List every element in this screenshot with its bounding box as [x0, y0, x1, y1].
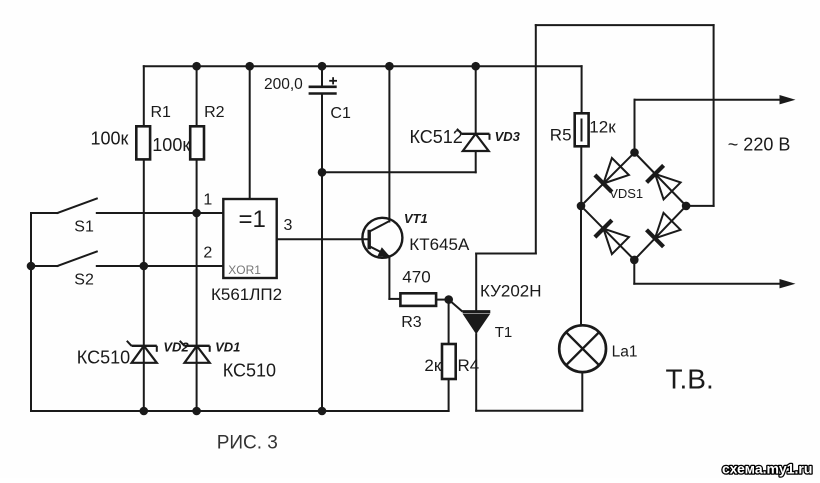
wire C1 column upper: [321, 66, 323, 86]
svg-text:VD2: VD2: [163, 340, 189, 355]
switch S2 blade: [58, 252, 97, 267]
svg-text:100к: 100к: [152, 135, 190, 155]
wire cathode-lamp bottom segment: [476, 410, 582, 412]
wire bridge edge top-right: [635, 153, 687, 206]
lamp La1: [559, 325, 606, 372]
wire left column S1-S2-bottom: [30, 213, 32, 411]
svg-text:КС510: КС510: [223, 360, 276, 380]
svg-text:КТ645А: КТ645А: [409, 235, 470, 254]
resistor R1: [136, 126, 150, 159]
transistor VT1: [362, 218, 402, 258]
wire C1 to VD3 bottom: [322, 171, 476, 173]
node top rail gate: [245, 62, 254, 71]
wire S2 left lead: [31, 265, 58, 267]
svg-text:100к: 100к: [91, 128, 129, 148]
wire visible inside R5: [581, 119, 583, 142]
wire lower mains lead: [634, 283, 781, 285]
wire R3 to node: [436, 299, 449, 301]
svg-text:Т.В.: Т.В.: [666, 363, 714, 394]
wire K202 column up: [535, 25, 537, 253]
node bottom rail R1: [140, 407, 149, 416]
wire bridge top vertex up: [634, 100, 636, 153]
wire bridge bottom vertex down: [633, 260, 635, 284]
wire gate output pin3 to base: [277, 238, 370, 240]
wire R2 column lower: [196, 159, 198, 411]
wire R4 column upper: [448, 300, 450, 344]
resistor R4: [442, 344, 456, 379]
wire right column down: [713, 25, 715, 206]
svg-text:R3: R3: [401, 314, 422, 331]
svg-text:=1: =1: [239, 206, 266, 233]
wire top rail: [144, 65, 582, 67]
capacitor C1 plus sign: [329, 77, 337, 84]
resistor R5: [575, 113, 589, 146]
node bridge left vertex: [577, 202, 586, 211]
wire bottom rail: [31, 410, 449, 412]
svg-text:R4: R4: [458, 356, 480, 375]
svg-text:470: 470: [402, 267, 430, 286]
wire S1 left lead: [31, 212, 58, 214]
svg-text:К561ЛП2: К561ЛП2: [211, 285, 282, 304]
wire top link rail: [536, 24, 714, 26]
switch S1 blade: [58, 199, 97, 214]
svg-text:Т1: Т1: [495, 324, 513, 341]
node R3 R4 gate: [444, 295, 453, 304]
svg-text:VD1: VD1: [215, 340, 240, 355]
wire lamp bottom lead: [581, 372, 583, 411]
svg-text:R2: R2: [204, 104, 225, 121]
wire VD3 column upper: [475, 66, 477, 134]
node top rail VT1: [385, 62, 394, 71]
node top rail C1: [318, 62, 327, 71]
wire bridge left vertex to lamp: [580, 206, 582, 326]
wire R5 top lead: [581, 66, 583, 113]
svg-text:VT1: VT1: [404, 211, 428, 226]
zener diode VD3: [457, 129, 490, 151]
node top rail R2: [192, 62, 201, 71]
arrowhead lower mains: [780, 279, 796, 288]
transistor VT1 emitter arrow: [377, 247, 390, 257]
svg-text:12к: 12к: [589, 117, 616, 136]
capacitor C1: [309, 87, 337, 94]
svg-text:3: 3: [284, 217, 293, 234]
node bridge bottom vertex: [630, 256, 639, 265]
node S1 line R2: [192, 209, 201, 218]
resistor R2: [190, 126, 204, 159]
wire emitter to R3: [389, 298, 400, 300]
svg-text:КУ202Н: КУ202Н: [480, 282, 542, 301]
node C1 VD3 wire: [318, 168, 327, 177]
diode bridge VDS1: diode top-left: [595, 158, 629, 192]
svg-text:~ 220 В: ~ 220 В: [728, 134, 791, 154]
zener diode VD2: [127, 341, 157, 363]
svg-text:схема.my1.ru: схема.my1.ru: [722, 461, 812, 477]
svg-text:S1: S1: [74, 218, 94, 235]
wire to bridge right vertex: [686, 205, 714, 207]
node top rail VD3: [471, 62, 480, 71]
thyristor gate lead: [449, 300, 463, 312]
node bridge right vertex: [682, 202, 691, 211]
thyristor T1 KU202N: [463, 310, 491, 313]
wire R1 column upper: [143, 66, 145, 126]
wire R4 column lower: [448, 379, 450, 411]
wire C1 column lower: [321, 94, 323, 411]
svg-text:200,0: 200,0: [264, 76, 303, 93]
node bottom rail C1: [318, 407, 327, 416]
wire thyristor anode up: [475, 254, 477, 312]
arrowhead upper mains: [780, 95, 796, 104]
svg-text:VD3: VD3: [495, 129, 521, 144]
svg-text:КС510: КС510: [77, 348, 130, 368]
svg-text:La1: La1: [612, 344, 638, 361]
wire bridge edge bottom-left: [581, 206, 634, 260]
resistor R3: [400, 293, 436, 306]
node bridge top vertex: [630, 148, 639, 157]
node S2 left column: [27, 262, 36, 271]
wire S1 right lead to gate pin1: [97, 212, 224, 214]
wire VT1 collector column: [388, 66, 390, 221]
wire bridge edge bottom-right: [634, 206, 686, 260]
op-amp U1 XOR gate K561LP2 box: [223, 199, 276, 278]
svg-text:РИС. 3: РИС. 3: [217, 433, 278, 454]
svg-text:C1: C1: [330, 105, 351, 122]
svg-text:S2: S2: [74, 272, 94, 289]
zener diode VD1: [180, 341, 210, 363]
svg-text:1: 1: [203, 191, 212, 208]
node S2 line R1: [140, 262, 149, 271]
diode bottom-right: [647, 213, 681, 247]
wire gate top pin column: [249, 66, 251, 199]
wire bridge edge top-left: [581, 153, 635, 206]
wire S2 right lead to gate pin2: [97, 265, 224, 267]
wire thyristor cathode down: [475, 334, 477, 411]
svg-text:КС512: КС512: [410, 127, 463, 147]
svg-text:2: 2: [203, 245, 212, 262]
svg-text:R5: R5: [550, 125, 572, 144]
svg-text:2к: 2к: [424, 356, 441, 375]
node bottom rail R2: [192, 407, 201, 416]
wire emitter down: [388, 258, 390, 299]
svg-text:XOR1: XOR1: [228, 263, 261, 277]
svg-text:R1: R1: [151, 104, 172, 121]
wire R2 column upper: [196, 66, 198, 126]
diode bottom-left: [595, 220, 629, 254]
diode top-right: [647, 165, 681, 199]
wire VD3 column lower: [475, 151, 477, 172]
wire upper mains lead: [635, 99, 781, 101]
wire R5 bottom lead to bridge left vertex: [580, 146, 582, 206]
wire anode horizontal jog: [476, 253, 536, 255]
wire R1 column lower: [143, 159, 145, 411]
svg-text:VDS1: VDS1: [609, 186, 643, 201]
